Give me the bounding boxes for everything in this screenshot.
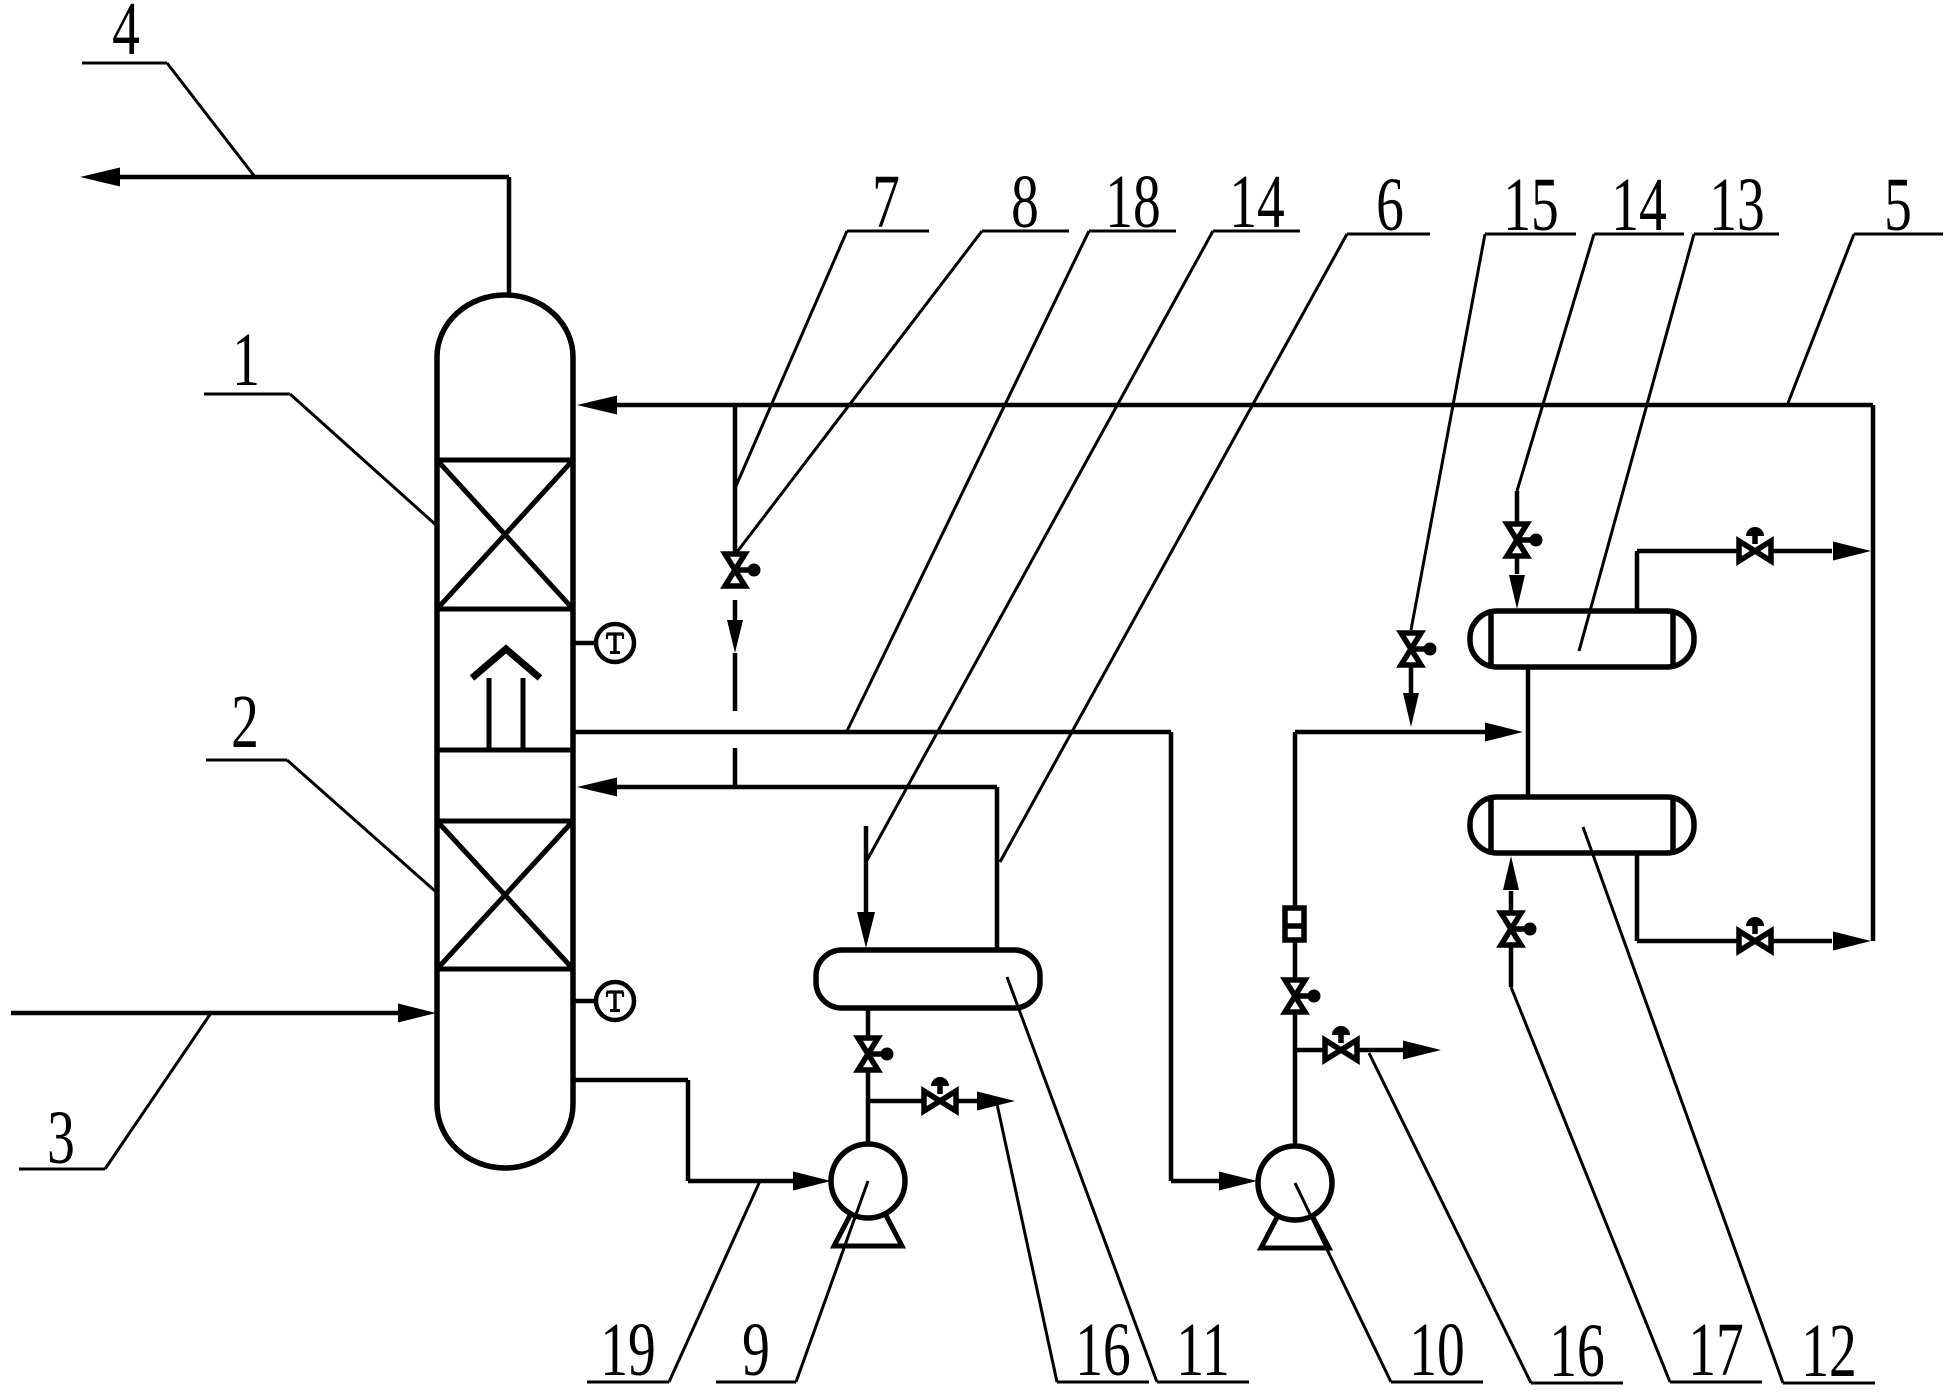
wire right bus down	[1871, 405, 1876, 941]
wire pump 10 to drums junction	[1295, 730, 1489, 735]
wire drum 12 outlet to bus	[1635, 853, 1640, 941]
temperature indicator T lower	[573, 982, 634, 1020]
column internal up-arrow	[472, 649, 540, 748]
node label 9	[716, 1181, 868, 1392]
wire inlet to drum 12 (label 17)	[1509, 945, 1514, 987]
valve 8	[725, 554, 761, 586]
node label 16	[997, 1104, 1149, 1392]
wire overhead product (stream 4)	[507, 177, 512, 296]
column C (packed tower) shell	[437, 295, 573, 1168]
wire feed (stream 3)	[11, 1011, 400, 1016]
wire branch line (stream 7)	[733, 405, 738, 554]
valve on branch 16 (pump 9 side)	[924, 1077, 956, 1111]
node label 8	[737, 161, 1069, 552]
valve on drum 13 inlet	[1507, 524, 1543, 556]
arrow down after valve 8	[727, 620, 743, 653]
packing section 2 (label 2)	[437, 821, 573, 969]
node label 13	[1579, 164, 1779, 651]
svg-text:9: 9	[742, 1309, 770, 1392]
node label 15	[1411, 164, 1576, 630]
valve on pump 10 discharge	[1285, 980, 1321, 1012]
svg-text:16: 16	[1075, 1309, 1130, 1392]
svg-text:12: 12	[1801, 1310, 1856, 1393]
temperature indicator T upper	[573, 624, 634, 662]
wire drums connector	[1526, 667, 1531, 797]
svg-text:1: 1	[232, 319, 260, 402]
wire inlet to drum 11 (label 18 stream)	[864, 826, 869, 912]
valve 15	[1401, 633, 1437, 665]
node label 14	[1517, 164, 1684, 491]
svg-text:10: 10	[1409, 1309, 1464, 1392]
svg-text:11: 11	[1176, 1309, 1229, 1392]
valve on pump 9 suction	[858, 1038, 894, 1070]
column tray line	[437, 748, 573, 753]
pump 10	[1258, 1146, 1332, 1248]
wire recycle line (stream 5)	[598, 403, 1873, 408]
valve on drum 12 outlet	[1739, 917, 1771, 951]
node label 5	[1788, 164, 1943, 403]
wire branch continues past crossing	[733, 748, 738, 787]
drum 11 (horizontal vessel)	[816, 950, 1040, 1008]
node label 19	[587, 1181, 760, 1392]
wire column bottoms (label 19)	[573, 1078, 688, 1083]
wire branch 16 near pump 9	[868, 1099, 924, 1104]
wire drum 13 outlet to bus	[1635, 551, 1640, 611]
node label 2	[206, 681, 435, 891]
node label 14	[866, 161, 1300, 862]
svg-text:17: 17	[1688, 1309, 1743, 1392]
pump 9	[831, 1144, 905, 1246]
node label 4	[82, 0, 255, 177]
node label 11	[1007, 977, 1249, 1392]
svg-text:2: 2	[231, 681, 259, 764]
wire drum 11 outlet	[866, 1008, 871, 1038]
node label 17	[1511, 987, 1762, 1392]
svg-text:4: 4	[112, 0, 140, 71]
node label 10	[1295, 1183, 1483, 1392]
wire inlet to drum 13 (label 14)	[1515, 491, 1520, 524]
drum 12 (horizontal vessel)	[1470, 797, 1694, 853]
svg-text:16: 16	[1549, 1310, 1604, 1393]
node label 18	[847, 161, 1176, 731]
valve on drum 12 inlet	[1501, 913, 1537, 945]
wire branch 16 near pump 10	[1295, 1048, 1325, 1053]
node label 7	[736, 161, 929, 486]
valve on branch 16 (pump 10 side)	[1325, 1026, 1357, 1060]
node label 16	[1369, 1053, 1623, 1393]
drum 13 (horizontal vessel)	[1470, 611, 1694, 667]
flow element on pump 10 discharge	[1285, 908, 1304, 940]
wire return line to column (label 14)	[598, 785, 997, 790]
node label 6	[1000, 164, 1430, 862]
packing section 1 (label 1)	[437, 460, 573, 609]
node label 12	[1583, 827, 1875, 1393]
node label 3	[19, 1013, 211, 1180]
node label 1	[204, 319, 436, 525]
wire column side draw (label 18)	[573, 730, 1171, 735]
valve on drum 13 outlet	[1739, 527, 1771, 561]
wire pump 10 discharge (label 6)	[1293, 1012, 1298, 1146]
svg-text:19: 19	[600, 1309, 655, 1392]
